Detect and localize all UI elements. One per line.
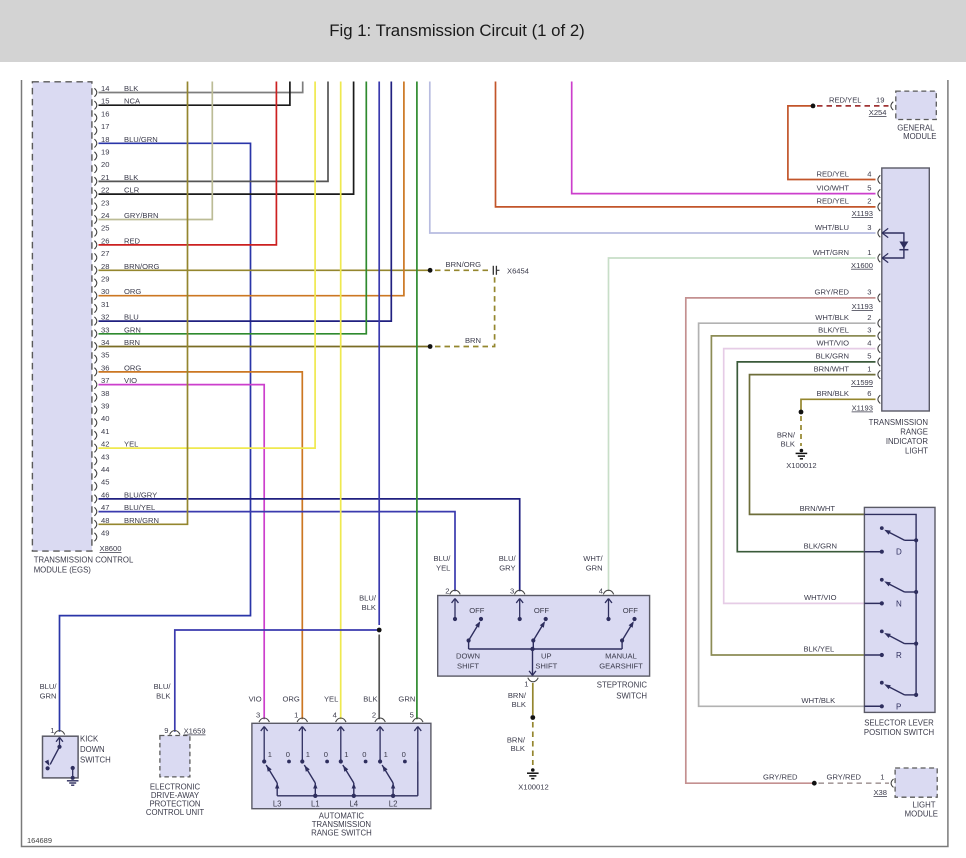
svg-text:5: 5: [867, 183, 871, 192]
svg-text:1: 1: [384, 750, 388, 759]
svg-text:INDICATOR: INDICATOR: [886, 437, 929, 446]
svg-text:17: 17: [101, 122, 109, 131]
svg-text:5: 5: [410, 710, 414, 719]
svg-text:WHT/VIO: WHT/VIO: [804, 593, 837, 602]
svg-text:3: 3: [867, 288, 871, 297]
svg-text:R: R: [896, 651, 902, 660]
svg-text:3: 3: [867, 326, 871, 335]
svg-text:1: 1: [294, 710, 298, 719]
svg-text:BLU/: BLU/: [499, 554, 517, 563]
svg-text:43: 43: [101, 452, 109, 461]
svg-text:31: 31: [101, 300, 109, 309]
svg-text:RED/YEL: RED/YEL: [817, 197, 850, 206]
svg-text:X1193: X1193: [852, 302, 873, 311]
svg-text:BRN/WHT: BRN/WHT: [800, 504, 836, 513]
svg-text:WHT/BLK: WHT/BLK: [801, 696, 835, 705]
svg-text:SELECTOR LEVER: SELECTOR LEVER: [864, 719, 934, 728]
svg-text:BRN/BLK: BRN/BLK: [817, 389, 850, 398]
svg-text:27: 27: [101, 249, 109, 258]
svg-text:CONTROL UNIT: CONTROL UNIT: [146, 808, 204, 817]
svg-text:3: 3: [510, 587, 514, 596]
svg-text:SHIFT: SHIFT: [457, 662, 479, 671]
svg-text:BLU/: BLU/: [359, 594, 377, 603]
svg-text:2: 2: [372, 710, 376, 719]
svg-text:BLU/: BLU/: [434, 554, 452, 563]
svg-text:TRANSMISSION: TRANSMISSION: [869, 418, 928, 427]
svg-text:3: 3: [867, 223, 871, 232]
svg-text:0: 0: [286, 750, 290, 759]
svg-text:4: 4: [867, 338, 871, 347]
svg-text:164689: 164689: [27, 836, 52, 845]
svg-text:29: 29: [101, 275, 109, 284]
svg-text:GEARSHIFT: GEARSHIFT: [599, 662, 643, 671]
svg-text:X1659: X1659: [184, 727, 206, 736]
svg-text:RED/YEL: RED/YEL: [817, 169, 850, 178]
svg-text:MODULE: MODULE: [905, 810, 938, 819]
svg-text:20: 20: [101, 160, 109, 169]
svg-text:GRN: GRN: [586, 564, 603, 573]
svg-text:X1193: X1193: [852, 209, 873, 218]
svg-text:Fig 1: Transmission Circuit (1: Fig 1: Transmission Circuit (1 of 2): [329, 21, 585, 40]
svg-text:1: 1: [880, 773, 884, 782]
svg-text:0: 0: [402, 750, 406, 759]
svg-text:BRN: BRN: [465, 336, 481, 345]
svg-text:TRANSMISSION CONTROL: TRANSMISSION CONTROL: [34, 556, 134, 565]
svg-text:6: 6: [867, 389, 871, 398]
svg-text:AUTOMATIC: AUTOMATIC: [319, 811, 365, 820]
svg-text:BLK: BLK: [362, 603, 376, 612]
svg-text:X1599: X1599: [851, 378, 873, 387]
svg-text:2: 2: [867, 197, 871, 206]
svg-text:4: 4: [599, 587, 603, 596]
svg-text:GRY/RED: GRY/RED: [815, 288, 850, 297]
svg-text:BRN/: BRN/: [508, 691, 527, 700]
svg-text:SHIFT: SHIFT: [535, 662, 557, 671]
svg-text:3: 3: [256, 710, 260, 719]
svg-text:BLK/GRN: BLK/GRN: [816, 352, 849, 361]
svg-text:L2: L2: [389, 800, 398, 809]
svg-text:49: 49: [101, 529, 109, 538]
svg-text:GRY: GRY: [499, 564, 515, 573]
svg-text:POSITION SWITCH: POSITION SWITCH: [864, 728, 934, 737]
svg-text:X8600: X8600: [100, 544, 122, 553]
svg-text:38: 38: [101, 389, 109, 398]
svg-text:X100012: X100012: [786, 461, 816, 470]
svg-text:SWITCH: SWITCH: [616, 692, 647, 701]
svg-text:1: 1: [867, 248, 871, 257]
svg-text:OFF: OFF: [623, 606, 639, 615]
svg-text:WHT/BLU: WHT/BLU: [815, 223, 849, 232]
svg-text:0: 0: [362, 750, 366, 759]
svg-text:4: 4: [333, 710, 337, 719]
svg-text:TRANSMISSION: TRANSMISSION: [312, 820, 371, 829]
svg-text:DOWN: DOWN: [80, 745, 105, 754]
svg-text:0: 0: [324, 750, 328, 759]
svg-text:GRN: GRN: [398, 695, 415, 704]
svg-text:BLU/: BLU/: [154, 682, 172, 691]
svg-text:YEL: YEL: [324, 695, 338, 704]
svg-text:BLK: BLK: [511, 744, 525, 753]
svg-text:19: 19: [876, 96, 884, 105]
svg-text:GRY/RED: GRY/RED: [827, 773, 862, 782]
svg-text:MODULE (EGS): MODULE (EGS): [34, 566, 92, 575]
svg-text:RED/YEL: RED/YEL: [829, 96, 862, 105]
svg-text:VIO/WHT: VIO/WHT: [817, 183, 850, 192]
svg-text:X100012: X100012: [518, 783, 548, 792]
svg-text:BLK: BLK: [156, 692, 170, 701]
svg-text:19: 19: [101, 148, 109, 157]
svg-text:RANGE: RANGE: [900, 428, 928, 437]
svg-text:2: 2: [445, 587, 449, 596]
svg-text:WHT/: WHT/: [583, 554, 603, 563]
svg-text:BLU/: BLU/: [40, 682, 58, 691]
svg-text:N: N: [896, 599, 902, 608]
svg-text:X6454: X6454: [507, 266, 529, 275]
svg-text:X1600: X1600: [851, 261, 873, 270]
svg-text:BLK/YEL: BLK/YEL: [818, 326, 849, 335]
svg-text:16: 16: [101, 109, 109, 118]
svg-text:OFF: OFF: [469, 606, 485, 615]
svg-text:40: 40: [101, 414, 109, 423]
svg-text:DOWN: DOWN: [456, 652, 480, 661]
svg-text:WHT/VIO: WHT/VIO: [817, 338, 850, 347]
svg-text:45: 45: [101, 478, 109, 487]
svg-text:WHT/GRN: WHT/GRN: [813, 248, 849, 257]
svg-text:STEPTRONIC: STEPTRONIC: [597, 681, 648, 690]
svg-text:9: 9: [164, 726, 168, 735]
svg-text:GRN: GRN: [40, 692, 57, 701]
svg-text:35: 35: [101, 351, 109, 360]
svg-text:BRN/: BRN/: [777, 431, 796, 440]
svg-text:KICK: KICK: [80, 735, 99, 744]
svg-text:L4: L4: [349, 800, 358, 809]
svg-text:1: 1: [50, 726, 54, 735]
svg-text:BLK/YEL: BLK/YEL: [803, 645, 834, 654]
svg-text:MODULE: MODULE: [903, 132, 936, 141]
svg-text:X38: X38: [873, 788, 887, 797]
svg-text:BLK: BLK: [512, 700, 526, 709]
svg-text:ORG: ORG: [282, 695, 299, 704]
svg-text:SWITCH: SWITCH: [80, 756, 111, 765]
svg-text:LIGHT: LIGHT: [913, 801, 936, 810]
svg-text:BLU/YEL: BLU/YEL: [124, 503, 155, 512]
svg-text:LIGHT: LIGHT: [905, 447, 928, 456]
svg-text:BLK/GRN: BLK/GRN: [804, 541, 837, 550]
svg-text:4: 4: [867, 169, 871, 178]
svg-text:BRN/ORG: BRN/ORG: [446, 260, 482, 269]
svg-text:P: P: [896, 702, 901, 711]
svg-text:UP: UP: [541, 652, 552, 661]
svg-text:BLK: BLK: [363, 695, 377, 704]
svg-text:2: 2: [867, 313, 871, 322]
svg-text:OFF: OFF: [534, 606, 550, 615]
svg-text:1: 1: [344, 750, 348, 759]
svg-text:1: 1: [867, 364, 871, 373]
svg-text:23: 23: [101, 198, 109, 207]
svg-text:WHT/BLK: WHT/BLK: [815, 313, 849, 322]
svg-text:BRN/WHT: BRN/WHT: [814, 364, 850, 373]
svg-text:L1: L1: [311, 800, 320, 809]
svg-text:X1193: X1193: [852, 404, 873, 413]
svg-text:44: 44: [101, 465, 109, 474]
svg-text:47: 47: [101, 503, 109, 512]
svg-text:1: 1: [524, 680, 528, 689]
svg-text:D: D: [896, 548, 902, 557]
svg-text:25: 25: [101, 224, 109, 233]
svg-text:MANUAL: MANUAL: [605, 652, 637, 661]
svg-text:1: 1: [268, 750, 272, 759]
svg-text:BLK: BLK: [781, 440, 795, 449]
svg-text:YEL: YEL: [436, 564, 450, 573]
svg-text:X254: X254: [869, 108, 887, 117]
svg-text:39: 39: [101, 402, 109, 411]
svg-text:VIO: VIO: [249, 695, 262, 704]
svg-text:5: 5: [867, 352, 871, 361]
svg-text:RANGE SWITCH: RANGE SWITCH: [311, 829, 372, 838]
svg-text:GRY/RED: GRY/RED: [763, 773, 798, 782]
svg-text:1: 1: [306, 750, 310, 759]
svg-text:L3: L3: [273, 800, 282, 809]
svg-text:41: 41: [101, 427, 109, 436]
